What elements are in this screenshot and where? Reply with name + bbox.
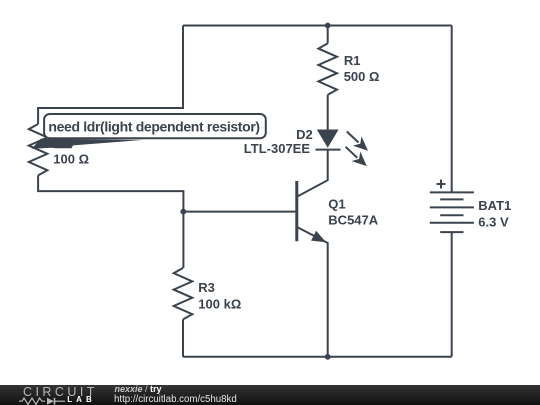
battery BAT1 plate long 2 (430, 206, 474, 208)
battery BAT1 plate short 3 (440, 231, 463, 233)
battery BAT1 plate long 3 (430, 222, 474, 224)
wire R1 top lead (327, 26, 329, 44)
node junction dot bottom (325, 354, 331, 360)
LED D2 light arrow 2 head (352, 152, 367, 167)
logo resistor-diode symbol (19, 397, 65, 405)
wire D2 to Q1 collector (297, 150, 328, 197)
svg-text:100 Ω: 100 Ω (53, 152, 89, 167)
wire R1 to D2 (327, 95, 329, 130)
transistor Q1 base bar (295, 181, 298, 241)
transistor Q1 emitter (297, 227, 328, 357)
battery BAT1 plate long 1 (430, 191, 474, 193)
battery BAT1 plate short 2 (440, 214, 463, 216)
resistor R3 body (174, 268, 193, 319)
wire R2 bottom to node A (38, 175, 183, 211)
svg-text:need ldr(light dependent resis: need ldr(light dependent resistor) (48, 119, 259, 135)
wire top rail (183, 25, 452, 27)
logo LAB text (67, 396, 95, 404)
footer url (114, 394, 237, 404)
callout tail (32, 139, 144, 149)
resistor R2 body (29, 124, 48, 175)
wire R3 bottom (182, 319, 184, 356)
resistor R1 body (318, 43, 337, 94)
node junction dot top (325, 23, 331, 29)
wire node A to R3 (182, 212, 184, 268)
svg-text:LTL-307EE: LTL-307EE (244, 141, 311, 156)
logo CIRCUIT text (23, 386, 98, 398)
svg-text:BAT1: BAT1 (478, 198, 511, 213)
svg-text:R1: R1 (344, 53, 361, 68)
footer title (115, 384, 162, 393)
wire right rail upper (451, 26, 453, 192)
wire left branch upper (38, 26, 183, 125)
svg-text:BC547A: BC547A (328, 212, 378, 227)
svg-text:6.3 V: 6.3 V (478, 215, 509, 230)
svg-text:Q1: Q1 (328, 196, 345, 211)
LED D2 light arrow 2 line (346, 147, 358, 158)
battery BAT1 plate short 1 (440, 198, 463, 200)
transistor Q1 emitter arrowhead (311, 231, 326, 242)
wire bottom rail (183, 356, 452, 358)
node junction dot base (node A) (180, 209, 186, 215)
svg-text:500 Ω: 500 Ω (344, 69, 380, 84)
callout bubble (44, 114, 266, 138)
diode D2 cathode bar (316, 149, 341, 151)
wire base (183, 211, 296, 213)
wire right rail lower (451, 232, 453, 357)
svg-text:D2: D2 (296, 127, 313, 142)
diode D2 body (317, 130, 339, 148)
battery BAT1 plus sign (437, 183, 446, 185)
LED D2 light arrow 1 head (353, 136, 368, 151)
footer bar (0, 385, 540, 405)
LED D2 light arrow 1 line (347, 132, 359, 143)
svg-text:R3: R3 (198, 280, 215, 295)
svg-text:100 kΩ: 100 kΩ (198, 296, 241, 311)
